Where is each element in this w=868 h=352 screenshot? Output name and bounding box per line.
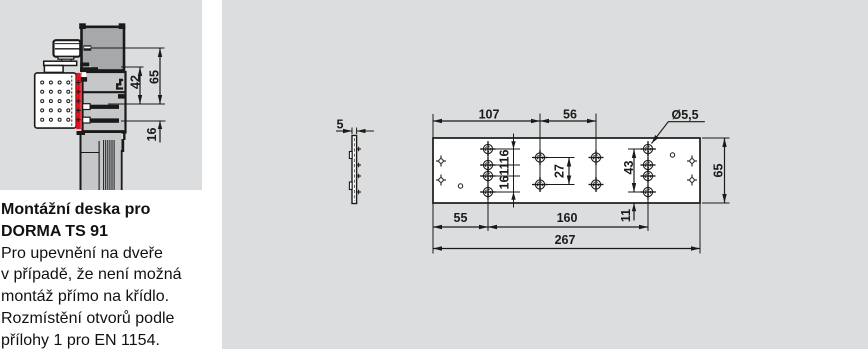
- dim 27: [568, 158, 570, 185]
- plate hole grid: [41, 81, 70, 121]
- dim 5 (edge view): [351, 128, 353, 135]
- row lines through column B (27 dim): [532, 157, 575, 159]
- dim 43: [633, 149, 635, 192]
- column D centerline: [647, 141, 649, 231]
- svg-text:Ø5,5: Ø5,5: [672, 108, 699, 122]
- ext lines 65 right: [702, 137, 730, 139]
- hidden hole column dashed line: [71, 76, 73, 129]
- leaf right wall lower segment: [123, 131, 125, 140]
- dim 65: [724, 138, 726, 203]
- dim 16/11/16 line: [513, 134, 515, 208]
- holes column C: [589, 150, 604, 165]
- dim 55: [433, 226, 488, 228]
- dim 65 (illustration): [159, 48, 161, 104]
- leaf top hook: [80, 67, 98, 72]
- mounting plate with hole grid: [35, 73, 76, 128]
- svg-text:65: 65: [712, 164, 726, 178]
- glazing bead groove: [119, 79, 123, 81]
- dim 56: [540, 120, 596, 122]
- leaf bottom web: [83, 130, 125, 132]
- svg-text:56: 56: [563, 108, 577, 122]
- svg-text:267: 267: [555, 233, 576, 247]
- ext line plate right bottom: [699, 203, 701, 254]
- left gray panel: [0, 0, 202, 190]
- small cross holes left: [436, 156, 446, 167]
- bracket under base plate: [44, 66, 63, 73]
- glass hatch lines: [103, 140, 105, 190]
- svg-text:43: 43: [622, 161, 636, 175]
- small cross holes right: [687, 156, 697, 167]
- plate edge view: [352, 136, 357, 204]
- holes column B: [533, 150, 548, 165]
- dim 160: [488, 226, 648, 228]
- column A centerline: [487, 141, 489, 231]
- svg-text:107: 107: [479, 108, 500, 122]
- svg-text:42: 42: [129, 75, 143, 89]
- dim 42 (illustration): [139, 67, 141, 104]
- svg-text:16: 16: [145, 128, 159, 142]
- svg-text:55: 55: [454, 211, 468, 225]
- frame bottom-left step notch: [80, 63, 89, 67]
- door closer body: [54, 40, 81, 57]
- dim 107: [433, 120, 540, 122]
- svg-text:11: 11: [619, 209, 633, 222]
- ext line plate left top: [432, 114, 434, 138]
- spindle pin: [71, 43, 82, 53]
- svg-text:11: 11: [498, 162, 512, 175]
- holes column D: [641, 142, 656, 157]
- base plate: [44, 61, 77, 65]
- dim 11 (to plate edge): [633, 203, 635, 220]
- column B centerline: [539, 114, 541, 192]
- row lines through column A: [480, 148, 520, 150]
- screw cross marks on strip: [76, 80, 81, 122]
- edge view left tabs: [349, 152, 352, 159]
- svg-text:27: 27: [553, 164, 567, 178]
- svg-text:160: 160: [557, 211, 578, 225]
- holes column A: [481, 142, 496, 157]
- ext line plate left bottom: [432, 203, 434, 254]
- door frame profile (dark block): [82, 27, 125, 71]
- dim 16 (illustration): [159, 121, 161, 143]
- edge view hole marks: [356, 147, 361, 194]
- right gray panel: [222, 0, 868, 349]
- leader Ø5,5: [652, 122, 705, 144]
- svg-text:5: 5: [337, 118, 344, 132]
- screw head lower: [83, 117, 90, 123]
- svg-text:16: 16: [498, 176, 512, 190]
- caption text block: [1, 199, 211, 352]
- dim 267: [433, 248, 700, 250]
- red mounting strip: [76, 73, 81, 129]
- dim ref line 16-bottom: [121, 120, 166, 122]
- frame top cap right: [119, 23, 126, 29]
- frame top cap left: [79, 23, 86, 29]
- dim ref line 42-top: [121, 66, 144, 68]
- right edge step block: [117, 139, 125, 152]
- mounting plate top view: [433, 138, 700, 203]
- closer stand: [58, 57, 74, 60]
- edge view centerline: [353, 138, 355, 201]
- row lines through column D (43 dim): [628, 148, 656, 150]
- svg-text:16: 16: [498, 150, 512, 164]
- svg-text:65: 65: [148, 70, 162, 84]
- leaf internal web: [83, 91, 125, 93]
- dim ref line common bottom: [108, 103, 165, 105]
- plain hole bottom-left: [458, 184, 462, 188]
- reference line through frame (65 top): [91, 47, 165, 49]
- lower door panel: [80, 133, 122, 190]
- screw shaft lower: [89, 118, 119, 122]
- screw shaft upper: [89, 105, 119, 109]
- column C centerline: [595, 114, 597, 192]
- door leaf upper section: [83, 72, 126, 133]
- plain hole top-right: [670, 153, 674, 157]
- screw head upper: [83, 104, 90, 110]
